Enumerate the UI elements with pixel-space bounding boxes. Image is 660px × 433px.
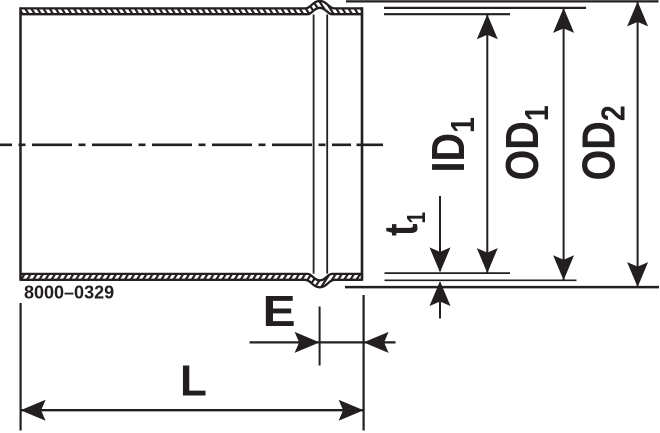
pipe top wall (hatched section with bead) — [21, 1, 363, 14]
extension line OD2 bottom — [345, 286, 659, 289]
extension line ID1 bottom — [385, 272, 511, 274]
dimension E line — [250, 332, 396, 353]
centre line — [0, 144, 351, 147]
centre line end dash — [357, 144, 384, 147]
pipe top inner line — [21, 8, 363, 14]
pipe right end line — [361, 7, 364, 281]
dimension OD2 — [627, 1, 648, 287]
svg-text:OD2: OD2 — [574, 105, 632, 180]
svg-text:t1: t1 — [375, 212, 430, 236]
extension line OD1 bottom — [385, 279, 577, 281]
dimension t1 lower leader — [430, 281, 451, 319]
extension line OD2 top — [346, 0, 659, 2]
dimension L line — [21, 400, 364, 421]
pipe bottom wall (hatched section with bead) — [21, 274, 363, 287]
bead inner edge line right — [326, 15, 328, 274]
pipe bottom inner line — [21, 274, 363, 281]
extension line ID1 top — [384, 13, 510, 15]
extension line OD1 top — [384, 7, 586, 9]
svg-text:ID1: ID1 — [423, 117, 481, 172]
svg-text:L: L — [180, 357, 207, 406]
pipe left end line — [19, 7, 22, 281]
pipe top outer line — [21, 1, 363, 8]
pipe bottom outer line — [21, 280, 363, 288]
svg-text:8000–0329: 8000–0329 — [24, 283, 114, 303]
dimension OD1 — [553, 8, 574, 280]
dimension t1 upper leader — [430, 196, 451, 272]
dimension ID1 — [477, 14, 498, 273]
dimension E extension line right (shared with L) — [363, 295, 365, 431]
svg-text:E: E — [263, 287, 296, 336]
svg-text:OD1: OD1 — [497, 105, 555, 180]
dimension E extension line left — [319, 307, 321, 366]
dimension L extension line left — [20, 303, 22, 431]
bead inner edge line left — [313, 15, 315, 274]
